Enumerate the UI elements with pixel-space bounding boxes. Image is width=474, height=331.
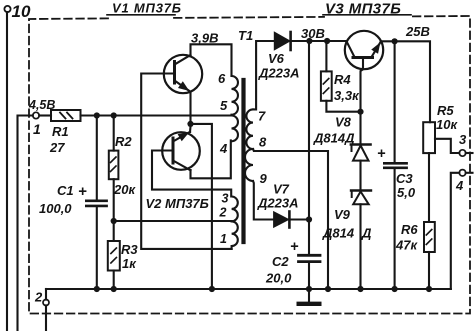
svg-text:30В: 30В xyxy=(301,26,325,41)
svg-text:4: 4 xyxy=(219,141,228,156)
svg-text:C3: C3 xyxy=(396,171,413,186)
wire V1 collector up and right xyxy=(191,44,232,76)
wire tap7 up to V6 anode xyxy=(253,41,275,109)
wire V8 anode to V9 cathode xyxy=(359,161,361,191)
T1 secondary winding (taps 7,8,9) xyxy=(245,109,253,181)
svg-text:7: 7 xyxy=(258,109,266,124)
svg-text:V9: V9 xyxy=(334,207,351,222)
svg-text:R1: R1 xyxy=(52,124,69,139)
svg-text:1к: 1к xyxy=(122,256,137,271)
node 30В xyxy=(306,38,312,44)
svg-text:27: 27 xyxy=(49,140,65,155)
node R4 top xyxy=(324,38,330,44)
wire R3 bottom to bus xyxy=(113,271,115,290)
wire 30В rail to V3 xyxy=(309,40,346,42)
svg-text:R3: R3 xyxy=(121,242,138,257)
node common emitters xyxy=(187,121,193,127)
svg-text:R4: R4 xyxy=(334,72,351,87)
terminal 3 outer lead xyxy=(466,152,473,154)
svg-text:5: 5 xyxy=(220,98,228,113)
svg-text:V7: V7 xyxy=(273,182,290,197)
resistor R4 xyxy=(321,41,360,103)
svg-text:100,0: 100,0 xyxy=(39,201,72,216)
wire V2 emitter up to node xyxy=(189,127,192,133)
transistor V2 xyxy=(162,132,200,171)
wire terminal 2 down through border xyxy=(45,305,47,331)
svg-text:8: 8 xyxy=(259,135,267,150)
capacitor C2 xyxy=(265,220,320,290)
solid underline under V3 label xyxy=(323,14,411,16)
T1 primary upper winding (taps 6,5,4) xyxy=(232,76,238,141)
wire terminal 2 stem up to bus xyxy=(45,289,47,300)
wire V7 cathode to 30В column xyxy=(289,218,309,220)
svg-text:3: 3 xyxy=(222,192,229,206)
svg-text:20к: 20к xyxy=(113,182,136,197)
bus node C1 xyxy=(94,286,100,292)
bus node C2/ground xyxy=(306,286,312,292)
svg-text:1: 1 xyxy=(220,232,227,246)
zener V8 Д814Д xyxy=(313,112,371,161)
bottom common bus xyxy=(46,288,451,290)
svg-text:R5: R5 xyxy=(437,103,454,118)
svg-text:V2 МП37Б: V2 МП37Б xyxy=(146,196,209,211)
node V7/C2 xyxy=(306,216,312,222)
svg-text:V1 МП37Б: V1 МП37Б xyxy=(112,1,182,16)
svg-text:25В: 25В xyxy=(405,24,430,39)
svg-text:+: + xyxy=(78,183,87,200)
bus node C3 xyxy=(392,286,398,292)
terminal 1 xyxy=(28,98,55,137)
terminal 2 xyxy=(34,290,49,306)
svg-text:5,0: 5,0 xyxy=(397,185,416,200)
svg-text:V3 МП37Б: V3 МП37Б xyxy=(325,1,401,18)
svg-text:2: 2 xyxy=(34,290,43,305)
wire V6 cathode to 30В node xyxy=(291,40,310,42)
svg-text:10к: 10к xyxy=(436,117,458,132)
bus node emitters xyxy=(209,286,215,292)
svg-text:C1: C1 xyxy=(57,183,74,198)
svg-text:2: 2 xyxy=(219,206,227,220)
solid underline under V1 label xyxy=(107,14,175,16)
svg-text:6: 6 xyxy=(218,71,226,86)
wire tap8 right then down to bus xyxy=(253,149,328,289)
wire emitters to bus xyxy=(191,124,212,289)
svg-text:9: 9 xyxy=(260,171,268,186)
wire R4 bottom to V3 base node xyxy=(326,101,360,112)
wire R2 bottom to R3 xyxy=(113,179,115,241)
wire 30В node down to V7 cathode and C2 xyxy=(308,41,310,220)
svg-text:Д: Д xyxy=(361,226,372,241)
wire R6 bottom to bus xyxy=(428,252,430,289)
wire V3 emitter to 25В rail xyxy=(381,41,430,122)
wire bias node to tap 2 xyxy=(114,220,232,222)
bus node zeners xyxy=(357,286,363,292)
capacitor C3 xyxy=(377,41,416,289)
bus node R3 xyxy=(111,286,117,292)
terminal 4 outer lead xyxy=(466,172,473,174)
bus node R6 xyxy=(426,286,432,292)
svg-text:1: 1 xyxy=(33,121,41,137)
wire V2 collector down right up to tap 4 xyxy=(191,140,231,178)
terminal 10 xyxy=(4,2,31,21)
wire V9 anode to bus xyxy=(359,204,361,289)
diode V7 Д223А xyxy=(257,182,298,228)
wire terminal1 left then down xyxy=(18,116,33,331)
capacitor C1 xyxy=(39,118,107,289)
svg-text:3,3к: 3,3к xyxy=(334,88,360,103)
svg-text:V8: V8 xyxy=(335,115,352,130)
resistor R2 xyxy=(109,118,137,197)
wire V1 emitter down xyxy=(189,92,191,124)
terminal 4 xyxy=(455,170,466,193)
wire tap9 down then right to V7 anode xyxy=(253,181,274,220)
svg-text:3: 3 xyxy=(459,132,467,147)
node R2/R3 junction xyxy=(111,218,117,224)
svg-text:3,9В: 3,9В xyxy=(191,31,218,46)
svg-text:47к: 47к xyxy=(395,238,418,253)
transistor V3 xyxy=(345,31,383,69)
T1 primary lower winding (taps 3,2,1) xyxy=(232,197,238,249)
svg-text:Д814: Д814 xyxy=(322,226,355,241)
wire R5 side to terminal 3 xyxy=(435,139,459,153)
resistor R1 xyxy=(39,110,80,155)
svg-text:10: 10 xyxy=(12,2,31,21)
ground xyxy=(299,289,320,304)
svg-text:4: 4 xyxy=(455,178,464,193)
svg-text:R2: R2 xyxy=(115,134,132,149)
transformer core xyxy=(241,80,245,242)
svg-text:+: + xyxy=(377,146,386,162)
node C1 top xyxy=(94,112,100,118)
svg-text:Д223А: Д223А xyxy=(258,66,299,81)
transistor V1 xyxy=(164,55,202,93)
svg-text:C2: C2 xyxy=(272,254,289,269)
resistor R6 xyxy=(395,222,435,253)
svg-text:Т1: Т1 xyxy=(238,28,253,43)
terminal 3 xyxy=(459,132,467,156)
svg-text:V6: V6 xyxy=(268,51,285,66)
wire V2 base left, down, right to tap 3 xyxy=(152,151,231,197)
node C3 top xyxy=(392,38,398,44)
resistor R5 xyxy=(423,103,458,153)
resistor R3 xyxy=(108,241,139,271)
svg-text:Д223А: Д223А xyxy=(257,196,298,211)
wire from terminal 10 down left edge xyxy=(6,12,8,331)
bus node tap8 xyxy=(325,286,331,292)
svg-text:+: + xyxy=(290,239,299,255)
svg-text:Д814Д: Д814Д xyxy=(313,131,355,146)
wire R1 to tap5 (main node line) xyxy=(81,114,233,116)
svg-text:R6: R6 xyxy=(401,222,418,237)
wire V3 base down to node xyxy=(361,58,364,112)
wire V1 base left and down to tap1 xyxy=(141,74,231,249)
wire terminal 4 to bus right end xyxy=(451,173,460,289)
zener V9 Д814Д xyxy=(322,191,372,241)
node R2 top xyxy=(111,112,117,118)
wire R5 bottom to R6 top xyxy=(428,153,430,222)
diode V6 Д223А xyxy=(258,32,299,81)
node V3 base / V8 xyxy=(357,109,363,115)
svg-text:20,0: 20,0 xyxy=(265,271,292,286)
